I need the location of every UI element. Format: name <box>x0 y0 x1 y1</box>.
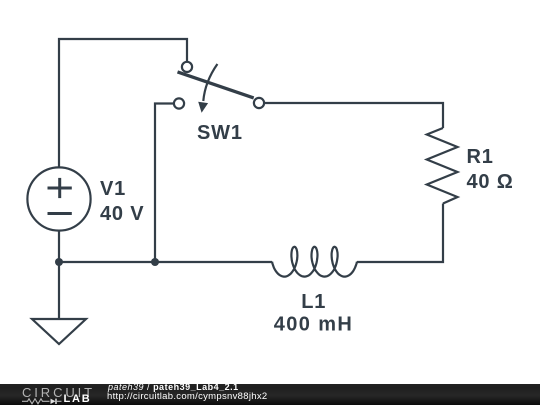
svg-text:L1: L1 <box>301 291 326 313</box>
svg-text:V1: V1 <box>100 178 126 200</box>
svg-text:R1: R1 <box>467 146 494 168</box>
svg-text:40 V: 40 V <box>100 203 144 225</box>
svg-text:SW1: SW1 <box>197 122 243 144</box>
svg-text:400 mH: 400 mH <box>274 314 354 336</box>
svg-text:40 Ω: 40 Ω <box>467 171 514 193</box>
